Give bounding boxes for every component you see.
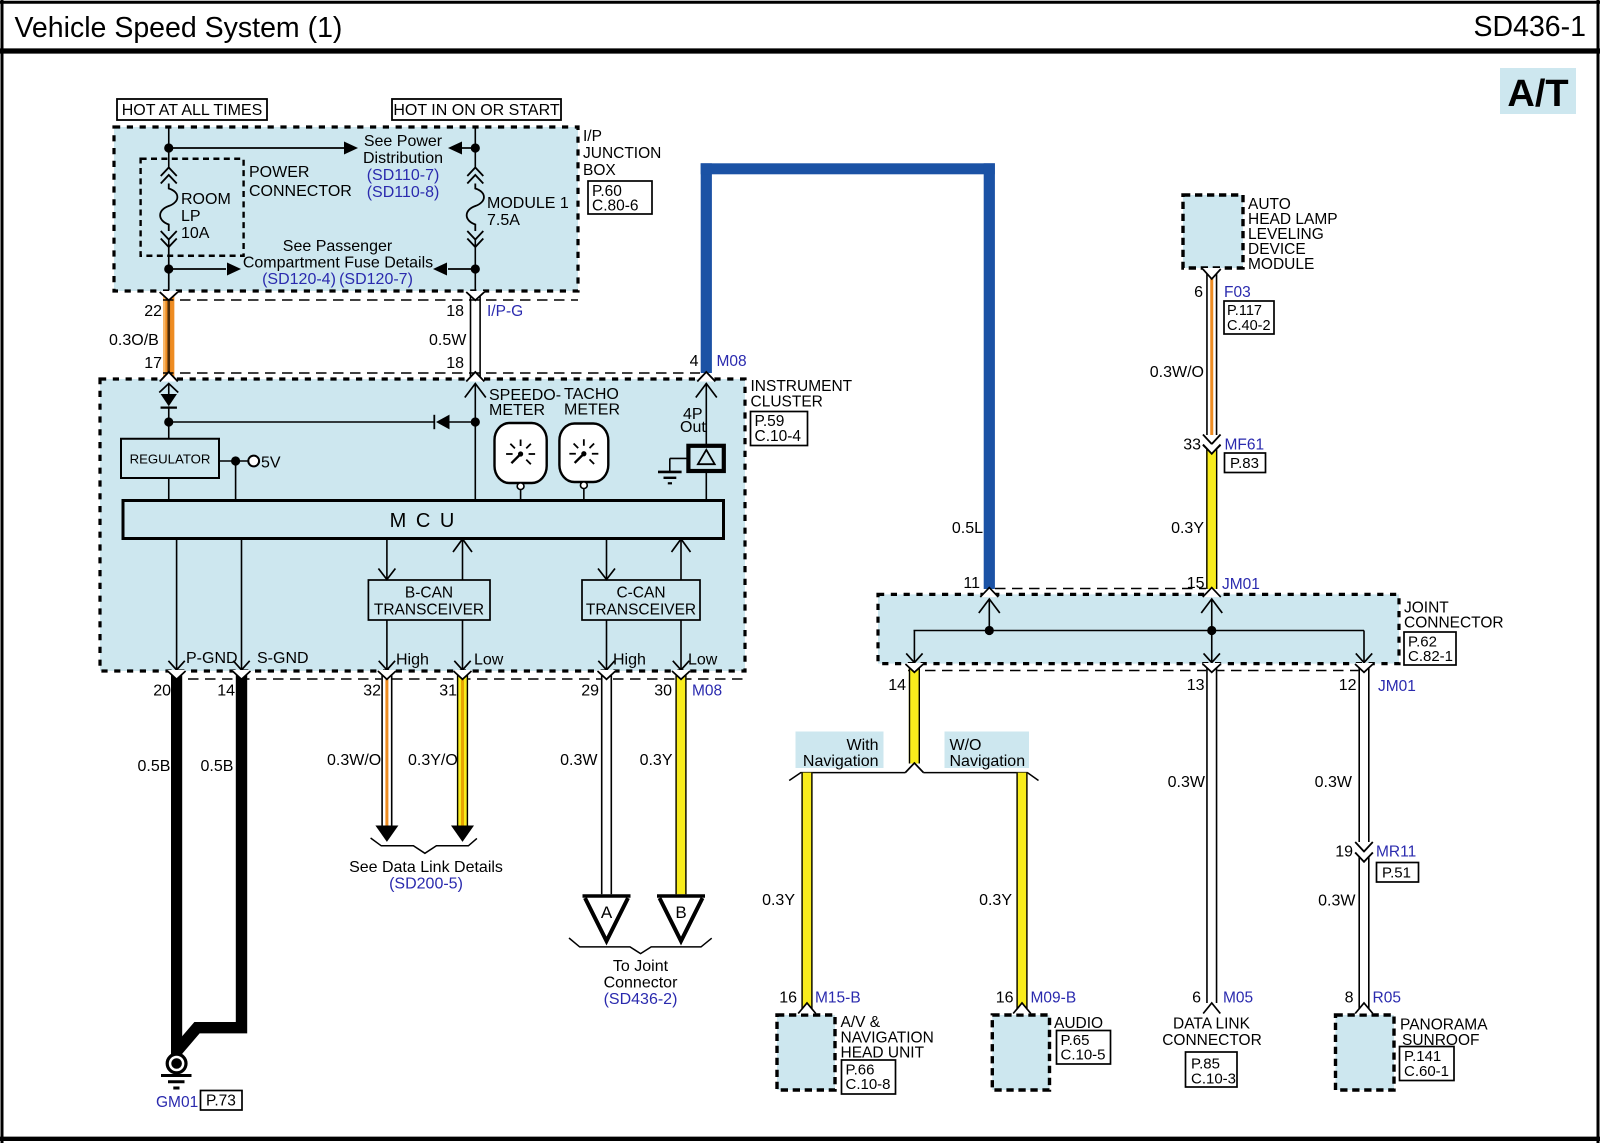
svg-text:15: 15 <box>1187 575 1205 592</box>
svg-text:0.3O/B: 0.3O/B <box>109 332 159 349</box>
svg-text:Low: Low <box>688 652 718 669</box>
svg-text:0.3W: 0.3W <box>560 752 598 769</box>
svg-text:I/P-G: I/P-G <box>487 303 523 320</box>
svg-text:MODULE 1: MODULE 1 <box>487 195 569 212</box>
svg-text:20: 20 <box>153 683 171 700</box>
svg-text:DATA LINK: DATA LINK <box>1173 1016 1251 1033</box>
svg-text:BOX: BOX <box>583 162 616 179</box>
svg-text:ROOM: ROOM <box>181 191 231 208</box>
svg-text:HOT AT ALL TIMES: HOT AT ALL TIMES <box>122 102 263 119</box>
svg-text:0.3W/O: 0.3W/O <box>327 752 381 769</box>
svg-text:Compartment Fuse Details: Compartment Fuse Details <box>243 255 433 272</box>
svg-text:0.3Y: 0.3Y <box>979 892 1012 909</box>
svg-text:C.80-6: C.80-6 <box>592 198 639 215</box>
svg-text:TRANSCEIVER: TRANSCEIVER <box>586 602 696 619</box>
svg-text:REGULATOR: REGULATOR <box>130 452 211 467</box>
svg-text:M15-B: M15-B <box>815 990 861 1007</box>
svg-text:Low: Low <box>474 652 504 669</box>
svg-text:18: 18 <box>446 355 464 372</box>
svg-text:(SD120-4) (SD120-7): (SD120-4) (SD120-7) <box>262 271 413 288</box>
svg-text:R05: R05 <box>1373 990 1401 1007</box>
svg-text:32: 32 <box>363 683 381 700</box>
svg-text:13: 13 <box>1187 677 1205 694</box>
svg-text:Distribution: Distribution <box>363 150 443 167</box>
svg-text:Vehicle Speed System (1): Vehicle Speed System (1) <box>15 12 343 44</box>
svg-text:16: 16 <box>996 990 1014 1007</box>
svg-text:0.3Y: 0.3Y <box>640 752 673 769</box>
svg-text:8: 8 <box>1345 990 1354 1007</box>
svg-text:6: 6 <box>1194 284 1203 301</box>
svg-text:5V: 5V <box>261 455 281 472</box>
svg-text:See Power: See Power <box>364 133 443 150</box>
svg-text:MODULE: MODULE <box>1248 256 1314 273</box>
svg-text:P.117: P.117 <box>1227 303 1262 319</box>
svg-text:MF61: MF61 <box>1225 437 1265 454</box>
svg-text:0.5B: 0.5B <box>201 758 234 775</box>
svg-text:M C U: M C U <box>390 510 457 532</box>
svg-text:0.3W: 0.3W <box>1318 893 1356 910</box>
svg-text:33: 33 <box>1183 437 1201 454</box>
svg-text:C.10-5: C.10-5 <box>1061 1047 1106 1064</box>
svg-text:(SD110-7): (SD110-7) <box>367 167 440 184</box>
svg-text:HOT IN ON OR START: HOT IN ON OR START <box>393 102 559 119</box>
svg-text:P.73: P.73 <box>206 1093 236 1110</box>
svg-text:AUDIO: AUDIO <box>1054 1015 1103 1032</box>
svg-text:W/O: W/O <box>950 737 982 754</box>
svg-text:M09-B: M09-B <box>1031 990 1077 1007</box>
svg-text:C.10-4: C.10-4 <box>755 428 802 445</box>
svg-text:JM01: JM01 <box>1222 576 1260 593</box>
svg-text:0.5B: 0.5B <box>138 758 171 775</box>
svg-text:4: 4 <box>690 353 699 370</box>
svg-text:17: 17 <box>144 355 162 372</box>
svg-text:B: B <box>675 903 686 922</box>
svg-text:LP: LP <box>181 208 201 225</box>
svg-text:(SD110-8): (SD110-8) <box>367 184 440 201</box>
svg-text:A/V &: A/V & <box>841 1014 881 1031</box>
svg-text:TRANSCEIVER: TRANSCEIVER <box>374 602 484 619</box>
svg-text:See Data Link Details: See Data Link Details <box>349 859 503 876</box>
svg-text:Navigation: Navigation <box>803 753 879 770</box>
svg-text:12: 12 <box>1339 677 1357 694</box>
svg-text:A: A <box>601 903 613 922</box>
svg-text:19: 19 <box>1335 844 1353 861</box>
svg-text:JUNCTION: JUNCTION <box>583 145 661 162</box>
svg-text:0.3Y: 0.3Y <box>762 892 795 909</box>
svg-text:High: High <box>396 652 429 669</box>
svg-text:22: 22 <box>144 303 162 320</box>
svg-text:CLUSTER: CLUSTER <box>751 394 823 411</box>
svg-text:CONNECTOR: CONNECTOR <box>249 183 352 200</box>
svg-text:INSTRUMENT: INSTRUMENT <box>751 378 853 395</box>
svg-text:TACHO: TACHO <box>564 386 619 403</box>
svg-text:18: 18 <box>446 303 464 320</box>
svg-text:A/T: A/T <box>1507 73 1568 115</box>
svg-text:Navigation: Navigation <box>950 753 1026 770</box>
svg-text:31: 31 <box>439 683 457 700</box>
svg-text:10A: 10A <box>181 225 210 242</box>
svg-text:14: 14 <box>217 683 235 700</box>
svg-text:0.3W: 0.3W <box>1168 774 1206 791</box>
svg-text:30: 30 <box>654 683 672 700</box>
svg-text:GM01: GM01 <box>156 1094 198 1111</box>
svg-text:(SD200-5): (SD200-5) <box>389 876 463 893</box>
svg-text:C.10-3: C.10-3 <box>1191 1071 1236 1088</box>
svg-text:MR11: MR11 <box>1376 844 1416 861</box>
svg-text:METER: METER <box>564 402 620 419</box>
svg-text:See Passenger: See Passenger <box>283 238 393 255</box>
svg-text:C-CAN: C-CAN <box>616 585 665 602</box>
svg-text:(SD436-2): (SD436-2) <box>604 991 678 1008</box>
svg-text:HEAD UNIT: HEAD UNIT <box>841 1045 925 1062</box>
svg-text:C.82-1: C.82-1 <box>1408 648 1453 665</box>
svg-text:C.40-2: C.40-2 <box>1227 318 1271 334</box>
svg-text:I/P: I/P <box>583 128 602 145</box>
svg-text:0.3Y/O: 0.3Y/O <box>408 752 458 769</box>
svg-text:0.3Y: 0.3Y <box>1171 520 1204 537</box>
svg-text:29: 29 <box>581 683 599 700</box>
svg-text:P-GND: P-GND <box>186 650 238 667</box>
svg-text:16: 16 <box>779 990 797 1007</box>
svg-text:0.3W/O: 0.3W/O <box>1150 364 1204 381</box>
svg-text:14: 14 <box>888 677 906 694</box>
svg-text:0.3W: 0.3W <box>1315 774 1353 791</box>
svg-text:11: 11 <box>963 575 980 592</box>
svg-text:JM01: JM01 <box>1378 678 1416 695</box>
svg-text:Out: Out <box>680 419 706 436</box>
svg-text:CONNECTOR: CONNECTOR <box>1404 615 1504 632</box>
svg-text:S-GND: S-GND <box>257 650 309 667</box>
svg-text:7.5A: 7.5A <box>487 212 520 229</box>
svg-text:C.10-8: C.10-8 <box>846 1076 891 1093</box>
svg-text:M05: M05 <box>1223 990 1253 1007</box>
svg-text:B-CAN: B-CAN <box>405 585 453 602</box>
svg-text:PANORAMA: PANORAMA <box>1400 1017 1488 1034</box>
svg-text:M08: M08 <box>717 353 747 370</box>
svg-text:With: With <box>847 737 879 754</box>
svg-text:To Joint: To Joint <box>613 958 669 975</box>
svg-text:F03: F03 <box>1224 284 1251 301</box>
svg-text:METER: METER <box>489 402 545 419</box>
svg-text:C.60-1: C.60-1 <box>1404 1063 1449 1080</box>
svg-text:P.83: P.83 <box>1230 455 1259 472</box>
svg-text:0.5W: 0.5W <box>429 332 467 349</box>
svg-text:CONNECTOR: CONNECTOR <box>1162 1032 1262 1049</box>
svg-text:POWER: POWER <box>249 164 309 181</box>
svg-text:0.5L: 0.5L <box>952 520 983 537</box>
svg-text:M08: M08 <box>692 683 722 700</box>
svg-text:Connector: Connector <box>604 975 678 992</box>
svg-text:6: 6 <box>1192 990 1201 1007</box>
svg-text:SD436-1: SD436-1 <box>1474 11 1586 43</box>
svg-text:High: High <box>613 652 646 669</box>
svg-text:P.51: P.51 <box>1382 865 1411 882</box>
